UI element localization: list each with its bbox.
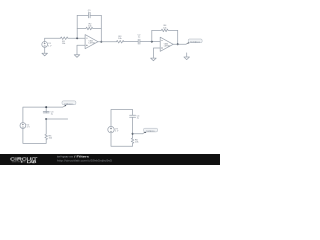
wire op2 output to flag [173, 43, 186, 45]
net flag bandpass [186, 39, 202, 44]
op-amp OA1 [85, 35, 98, 49]
wire feedback2 left vertical [151, 30, 153, 41]
wire bottom-left loop [23, 107, 63, 143]
svg-text:LM741: LM741 [89, 43, 96, 45]
op-amp OA2 [160, 37, 173, 51]
ground standalone below flag [184, 53, 190, 60]
svg-text:LM741: LM741 [164, 45, 171, 47]
node C junction at op2 inverting input [151, 41, 153, 43]
CircuitLab logo [10, 156, 37, 164]
wire stage1 output to stage2 [98, 41, 160, 43]
net flag highpass [62, 101, 76, 107]
svg-text:http://circuitlab.com/c/59rb5n: http://circuitlab.com/c/59rb5njbc9s5 [57, 158, 112, 162]
node junction mid bottom-left [45, 118, 47, 120]
ground op-amp1 [74, 55, 80, 58]
ground below V1 [42, 53, 48, 56]
resistor R3 [117, 36, 124, 43]
capacitor C1 feedback [77, 10, 101, 18]
resistor R5 [45, 134, 53, 140]
svg-text:1 V: 1 V [48, 45, 52, 47]
svg-text:bandpass: bandpass [190, 41, 200, 43]
wire op-amp2 + input to ground [153, 48, 160, 58]
resistor R4 feedback [152, 25, 178, 32]
wire feedback2 right vertical [177, 30, 179, 44]
voltage source V3 [108, 126, 119, 132]
wire V1 to R1 [45, 37, 61, 39]
net flag lowpass [143, 128, 158, 133]
svg-text:1 V: 1 V [27, 127, 31, 129]
svg-text:1 V: 1 V [115, 131, 119, 133]
voltage source V1 [42, 38, 52, 53]
wire feedback1 right vertical [100, 15, 102, 41]
node A junction [76, 37, 78, 39]
footer bar [0, 154, 220, 165]
svg-text:highpass: highpass [65, 103, 75, 105]
capacitor C4 [130, 115, 141, 119]
wire bottom-middle loop [111, 110, 133, 147]
wire stub to flag bottom-middle [133, 133, 143, 135]
svg-text:LAB: LAB [27, 160, 38, 164]
resistor R2 feedback [77, 23, 101, 30]
node B junction at op1 output [100, 41, 102, 43]
wire R1 to op-amp inverting input [68, 37, 85, 39]
node junction bottom-middle [132, 133, 134, 135]
wire op-amp1 + input to ground [77, 45, 85, 54]
node junction top bottom-left [45, 106, 47, 108]
capacitor C2 [138, 34, 142, 44]
wire feedback1 left vertical [76, 15, 78, 38]
voltage source V2 [20, 123, 30, 129]
capacitor C3 [43, 111, 54, 115]
wire stub right bottom-left [46, 118, 67, 120]
node D junction at op2 output [177, 43, 179, 45]
svg-text:lowpass: lowpass [147, 131, 156, 133]
resistor R1 [61, 37, 68, 45]
resistor R6 [131, 138, 139, 144]
ground op-amp2 [151, 58, 157, 61]
